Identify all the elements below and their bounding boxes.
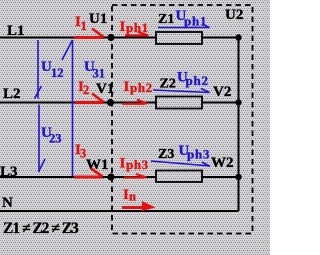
- svg-text:ph1: ph1: [126, 20, 149, 35]
- svg-text:U2: U2: [225, 7, 243, 23]
- current arrow Iph3: [124, 174, 147, 178]
- svg-text:ph2: ph2: [186, 73, 209, 88]
- current arrow In: [122, 201, 156, 211]
- svg-text:Z1: Z1: [158, 12, 174, 27]
- svg-text:W1: W1: [86, 157, 109, 173]
- svg-text:Z3: Z3: [158, 147, 174, 162]
- current arrow Iph2: [122, 100, 147, 104]
- svg-text:L3: L3: [0, 164, 18, 180]
- load boundary dashed box: [112, 5, 253, 234]
- svg-text:ph3: ph3: [126, 157, 149, 172]
- svg-text:W2: W2: [211, 155, 234, 171]
- node U2: [235, 34, 241, 40]
- svg-text:V2: V2: [213, 84, 231, 100]
- current arrow I3: [74, 169, 103, 178]
- svg-text:U1: U1: [89, 11, 107, 27]
- svg-text:3: 3: [80, 147, 86, 161]
- svg-text:Z2: Z2: [160, 77, 176, 92]
- svg-text:2: 2: [83, 83, 89, 97]
- svg-text:I: I: [124, 79, 130, 95]
- voltage arrow U31: [62, 40, 73, 176]
- node U1: [107, 34, 114, 41]
- node W1: [107, 173, 114, 180]
- svg-text:L1: L1: [7, 23, 25, 39]
- voltage arrow Uph1: [158, 24, 210, 28]
- resistor Z1: [156, 32, 202, 44]
- svg-text:L2: L2: [3, 86, 21, 102]
- wire L3 phase line: [0, 176, 239, 178]
- node V2: [235, 99, 241, 105]
- voltage arrow U23: [39, 105, 46, 173]
- voltage arrow Uph2: [153, 89, 210, 93]
- resistor Z3: [156, 171, 202, 183]
- node V1: [107, 99, 114, 106]
- voltage arrow Uph3: [151, 161, 210, 167]
- wire L2 phase line: [0, 102, 239, 104]
- current arrow Iph1: [125, 32, 149, 36]
- svg-text:12: 12: [51, 66, 64, 80]
- svg-text:ph2: ph2: [130, 80, 153, 95]
- wire star-point bus: [238, 38, 240, 212]
- voltage arrow U12: [35, 40, 42, 99]
- svg-text:I: I: [120, 156, 126, 172]
- wire L1 phase line: [0, 37, 239, 39]
- svg-text:Z1 ≠ Z2 ≠ Z3: Z1 ≠ Z2 ≠ Z3: [3, 220, 79, 237]
- svg-text:1: 1: [81, 19, 87, 33]
- svg-text:N: N: [2, 195, 13, 211]
- current arrow I2: [75, 94, 104, 103]
- svg-text:23: 23: [49, 132, 62, 146]
- svg-text:V1: V1: [96, 81, 114, 97]
- svg-text:I: I: [120, 19, 126, 35]
- resistor Z2: [156, 97, 202, 109]
- wire N neutral line: [0, 210, 239, 212]
- svg-text:n: n: [129, 190, 136, 204]
- current arrow I1: [74, 29, 104, 38]
- svg-text:ph3: ph3: [187, 147, 210, 162]
- svg-text:ph1: ph1: [184, 14, 207, 29]
- node W2: [235, 174, 241, 180]
- svg-text:31: 31: [93, 67, 106, 81]
